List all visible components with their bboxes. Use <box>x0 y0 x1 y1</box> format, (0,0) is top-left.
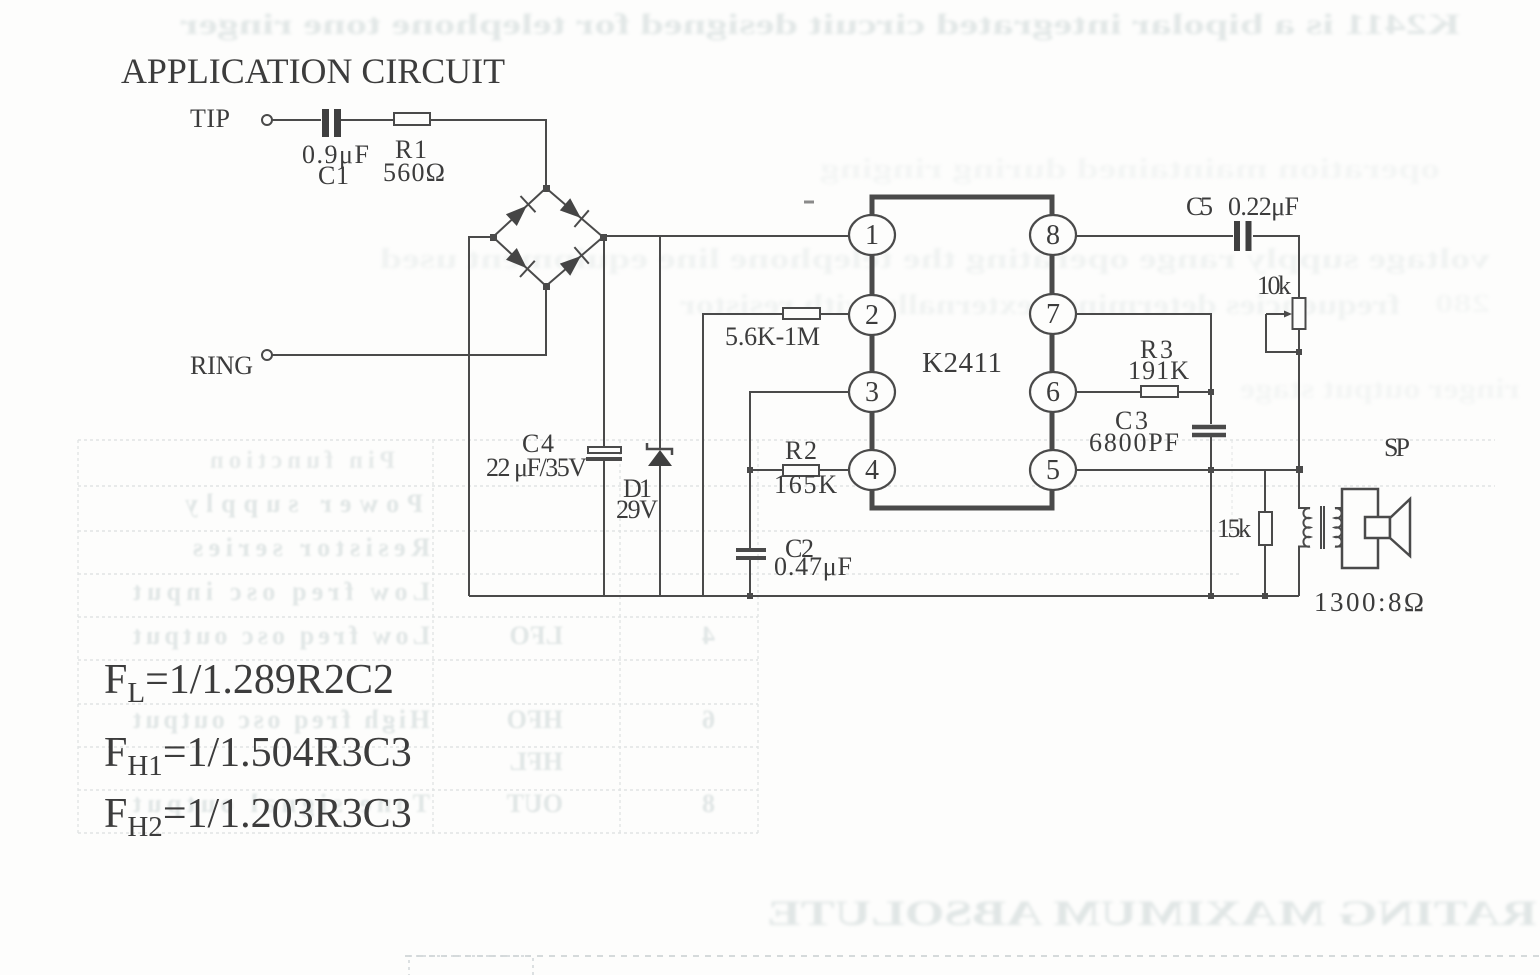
svg-text:ringer output stage: ringer output stage <box>1240 374 1520 405</box>
wire bridge right to pin 1 <box>603 235 851 237</box>
capacitor C2 <box>736 550 766 596</box>
ghost bottom text <box>767 893 1537 933</box>
wire bridge left to left rail <box>469 237 493 596</box>
svg-text:APPLICATION CIRCUIT: APPLICATION CIRCUIT <box>121 51 505 91</box>
node bridge top <box>543 185 550 192</box>
ghost top bleed-through line <box>180 8 1460 41</box>
svg-text:6: 6 <box>1046 377 1060 408</box>
speaker SP <box>1342 489 1410 568</box>
svg-text:C1: C1 <box>318 161 349 190</box>
svg-text:voltage supply range operating: voltage supply range operating the telep… <box>379 244 1490 275</box>
node bridge bottom <box>543 283 550 290</box>
node bridge right <box>600 234 607 241</box>
svg-text:10k: 10k <box>1257 271 1291 300</box>
zener diode D1 <box>647 236 672 596</box>
wire RING to bridge bottom <box>272 286 546 355</box>
ghost row behind pin1 wire <box>379 244 1490 275</box>
pin 7 <box>1030 294 1076 334</box>
pin 6 <box>1030 372 1076 412</box>
resistor R3 <box>1141 386 1178 397</box>
svg-text:Resistor series: Resistor series <box>193 533 430 562</box>
svg-text:5: 5 <box>1046 455 1060 486</box>
capacitor C5 <box>1234 221 1252 251</box>
TIP terminal <box>262 115 272 125</box>
transformer core <box>1321 506 1324 549</box>
ghost cell box bottom left <box>409 956 533 975</box>
svg-text:2: 2 <box>865 300 879 331</box>
ghost row above IC <box>820 154 1440 185</box>
node C2 rail <box>747 593 753 599</box>
svg-text:LFO: LFO <box>510 621 563 650</box>
svg-text:0.47μF: 0.47μF <box>774 552 852 581</box>
transformer secondary <box>1335 508 1342 547</box>
ghost row right of C3 <box>1240 374 1520 405</box>
svg-text:SP: SP <box>1384 433 1410 462</box>
transformer primary <box>1299 470 1310 596</box>
wire pin3 branch <box>750 392 850 548</box>
svg-text:15k: 15k <box>1217 514 1251 543</box>
wire R1 to bridge top <box>430 120 546 188</box>
svg-text:0.22μF: 0.22μF <box>1228 192 1299 221</box>
capacitor C3 <box>1192 427 1226 596</box>
svg-text:22 μF/35V: 22 μF/35V <box>486 453 587 482</box>
node pin5/main <box>1296 466 1303 473</box>
pin 4 <box>849 450 895 490</box>
resistor R2 <box>783 465 819 476</box>
potentiometer 10k <box>1266 298 1306 469</box>
wire pin8 to C5 <box>1074 235 1233 237</box>
pin 2 <box>849 295 895 335</box>
stray dash mark <box>804 201 814 204</box>
svg-text:HFO: HFO <box>507 705 563 734</box>
wire pin5 to right <box>1074 469 1299 471</box>
pin numbers <box>865 220 1060 486</box>
pin 3 <box>849 372 895 412</box>
svg-text:Power supply: Power supply <box>185 489 423 518</box>
IC pins <box>849 215 1076 490</box>
svg-text:K2411: K2411 <box>922 347 1002 379</box>
wire R2 to pin4 <box>819 469 850 471</box>
svg-text:HFL: HFL <box>510 747 563 776</box>
svg-text:FH1=1/1.504R3C3: FH1=1/1.504R3C3 <box>104 730 412 782</box>
bottom rail wire <box>469 595 1299 597</box>
diode bridge <box>490 185 607 290</box>
svg-text:Pin function: Pin function <box>210 447 395 474</box>
bridge diode D-d (bottom to right) <box>546 237 603 286</box>
svg-text:OUT: OUT <box>507 789 563 818</box>
svg-text:C5: C5 <box>1186 192 1213 221</box>
bridge diode D-c (left to bottom) <box>493 237 546 286</box>
main schematic ink <box>262 109 1410 599</box>
svg-text:3: 3 <box>865 377 879 408</box>
wire C1 to R1 <box>341 119 394 121</box>
svg-text:RATING MAXIMUM ABSOLUTE: RATING MAXIMUM ABSOLUTE <box>767 893 1537 933</box>
svg-text:FL=1/1.289R2C2: FL=1/1.289R2C2 <box>104 657 394 709</box>
ghost row 2 <box>680 289 1490 321</box>
svg-text:Low freq osc output: Low freq osc output <box>133 621 430 650</box>
svg-text:7: 7 <box>1046 299 1060 330</box>
svg-text:29V: 29V <box>616 495 658 524</box>
RING terminal <box>262 350 272 360</box>
wire R3 to node <box>1178 391 1211 393</box>
capacitor C4 <box>586 236 622 596</box>
ghost table row texts <box>133 447 715 818</box>
wire pin6 to R3 <box>1074 391 1141 393</box>
pin 8 <box>1030 215 1076 255</box>
wire C5 to corner and down <box>1253 236 1299 298</box>
svg-text:4: 4 <box>865 455 879 486</box>
svg-text:K2411 is a bipolar integrated: K2411 is a bipolar integrated circuit de… <box>180 8 1460 41</box>
svg-text:R2: R2 <box>785 436 817 465</box>
svg-text:5.6K-1M: 5.6K-1M <box>725 322 820 351</box>
node R3 <box>1208 389 1214 395</box>
svg-text:165K: 165K <box>774 470 837 499</box>
wire pin2 branch <box>820 313 850 315</box>
resistor R1 <box>394 113 430 125</box>
resistor 5.6K-1M <box>783 308 820 319</box>
svg-text:560Ω: 560Ω <box>383 158 445 187</box>
svg-text:TIP: TIP <box>190 104 230 133</box>
IC K2411 body <box>872 197 1052 508</box>
svg-text:6: 6 <box>702 705 715 734</box>
wire R2 left <box>750 469 783 471</box>
svg-text:4: 4 <box>702 621 715 650</box>
svg-text:1300:8Ω: 1300:8Ω <box>1314 587 1424 617</box>
node pin5/C3 <box>1208 467 1214 473</box>
ghost bottom dashed line <box>405 955 1540 957</box>
svg-text:6800PF: 6800PF <box>1089 428 1179 457</box>
svg-text:RING: RING <box>190 351 253 380</box>
pin 5 <box>1030 450 1076 490</box>
svg-text:1: 1 <box>865 220 879 251</box>
bridge diode D-a (left to top) <box>493 188 546 237</box>
svg-text:operation maintained during ri: operation maintained during ringing <box>820 154 1440 185</box>
node bridge left <box>490 234 497 241</box>
node R2 <box>747 467 753 473</box>
svg-text:191K: 191K <box>1128 356 1189 385</box>
resistor 15k <box>1259 470 1272 599</box>
ghost table grid <box>78 440 1495 833</box>
wire TIP to C1 <box>272 119 321 121</box>
capacitor C1 <box>322 109 341 137</box>
svg-text:8: 8 <box>702 789 715 818</box>
node C3 rail <box>1208 593 1214 599</box>
wire pin7 <box>1074 314 1211 424</box>
bridge diode D-b (top to right) <box>546 188 603 237</box>
svg-text:280: 280 <box>1435 289 1490 318</box>
svg-text:Low freq osc input: Low freq osc input <box>133 577 430 606</box>
svg-text:8: 8 <box>1046 220 1060 251</box>
wire resistor to down rail <box>703 314 783 596</box>
pin 1 <box>849 215 895 255</box>
